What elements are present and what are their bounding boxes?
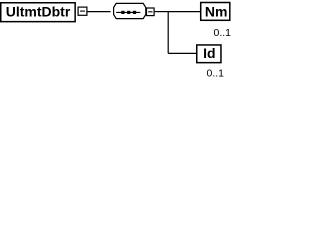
wire from compositor to branch point — [155, 11, 169, 13]
wire from expand button to sequence compositor — [88, 11, 111, 13]
svg-text:Nm: Nm — [205, 3, 228, 19]
wire to element Nm — [168, 11, 200, 13]
element box Nm — [201, 3, 230, 21]
svg-text:UltmtDbtr: UltmtDbtr — [6, 4, 71, 20]
wire vertical branch — [167, 12, 169, 54]
wire to element Id — [168, 52, 196, 54]
svg-text:0..1: 0..1 — [206, 68, 224, 80]
expand button of UltmtDbtr — [78, 7, 87, 15]
svg-text:0..1: 0..1 — [213, 27, 231, 39]
svg-text:Id: Id — [203, 45, 215, 61]
element box Id — [197, 45, 221, 63]
element box UltmtDbtr — [1, 3, 75, 22]
sequence compositor — [114, 3, 146, 18]
expand button of sequence compositor — [147, 8, 155, 16]
